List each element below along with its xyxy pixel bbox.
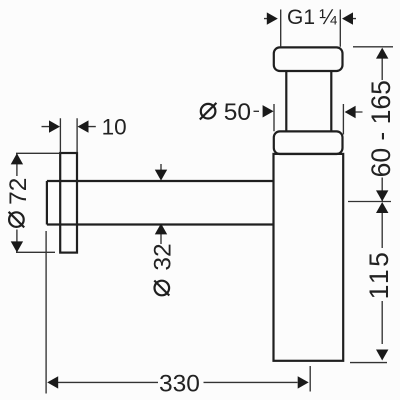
svg-text:50: 50 <box>224 99 251 126</box>
arrow right of 330 <box>298 376 309 388</box>
arrow left of 10 <box>49 120 60 132</box>
label D72 diameter symbol <box>9 212 25 228</box>
dimension G 1 1/4 (top) <box>264 10 356 47</box>
dimension 10 (wall flange thickness) <box>42 118 96 152</box>
label D32 diameter symbol <box>154 281 169 296</box>
dimension D50 <box>254 104 363 135</box>
dimension 330 (bottom) <box>46 231 310 394</box>
arrow right of G 1 1/4 <box>342 12 353 24</box>
flange collar <box>274 131 343 154</box>
arrow left of D50 <box>263 105 274 117</box>
svg-text:72: 72 <box>5 178 32 205</box>
wall pipe stub <box>46 181 48 225</box>
arrow down at pipe top <box>155 170 167 181</box>
cap (threaded connector G1 1/4) <box>274 47 343 71</box>
svg-text:330: 330 <box>159 371 200 398</box>
svg-text:10: 10 <box>102 114 127 139</box>
tailpiece pipe <box>286 71 331 131</box>
arrow up of 60-165 <box>376 48 388 59</box>
arrow down of 115 <box>376 350 388 361</box>
arrow down of 60-165 <box>376 190 388 201</box>
dimension 115 (right bottom) <box>350 212 387 363</box>
arrow right of D50 <box>345 106 356 118</box>
arrow left of 330 <box>47 376 58 388</box>
dimension D72 (left) <box>16 153 60 252</box>
svg-text:G1 ¼: G1 ¼ <box>287 6 337 29</box>
arrow right of 10 <box>78 120 89 132</box>
arrow left of G 1 1/4 <box>267 12 278 24</box>
dimension D32 (pipe) <box>160 164 162 244</box>
arrow down of D72 <box>11 241 23 252</box>
arrow up at pipe bottom <box>155 223 167 234</box>
arrow up of 115 <box>376 202 388 213</box>
svg-text:32: 32 <box>150 243 177 270</box>
dimension 60 - 165 (right top) <box>348 47 393 202</box>
horizontal waste pipe <box>47 181 274 225</box>
siphon body <box>274 154 344 361</box>
arrow up of D72 <box>11 153 23 164</box>
svg-text:115: 115 <box>364 250 394 300</box>
wall flange <box>60 153 77 253</box>
svg-text:60 - 165: 60 - 165 <box>366 80 396 177</box>
label D50 diameter symbol <box>200 103 217 120</box>
